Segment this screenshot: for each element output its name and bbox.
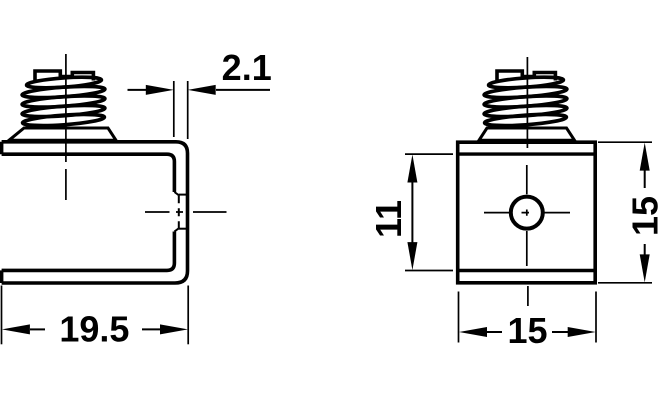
bracket inner contour lower part [2,232,175,271]
dimension 15 right extension line bottom [598,282,652,284]
svg-text:15: 15 [624,196,660,236]
dimension 15 bottom extension line left [458,292,460,343]
dimension 2.1 extension line outer [187,81,189,139]
hole circle [511,197,543,229]
dimension 11 extension line bottom [405,270,453,272]
dimension 11 line with arrows [411,178,413,246]
dimension 15 bottom extension line right [595,292,597,343]
horizontal centerline right view [484,212,570,214]
hidden hole dashed bore line [178,195,180,228]
bracket inner contour upper part [2,154,175,192]
dimension 19.5 extension line left [1,286,3,345]
screw neck trapezoid left [9,128,116,140]
screw thread right view [484,71,567,128]
screw neck trapezoid right [479,128,575,140]
vertical centerline right view [527,57,528,306]
block top band line [458,152,596,155]
dimension 2.1 left arrow [128,89,147,91]
svg-text:15: 15 [507,310,547,351]
dimension 15 right line with arrows [644,170,646,255]
dimension 19.5 right arrow [142,328,160,330]
dimension 15 bottom left arrow [486,331,502,333]
dimension 11 extension line top [405,153,453,155]
dimension 15 right extension line top [598,141,652,143]
dimension 19.5 left arrow [30,328,45,330]
bracket left end closures [0,142,3,283]
hidden hole chamfer top [174,192,178,195]
hidden hole chamfer bottom [174,228,178,231]
screw vertical centerline left view [65,54,67,200]
hidden hole top edge [179,194,188,196]
dimension 2.1 extension line inner [173,81,175,137]
block outline [458,142,596,283]
block bottom band line [458,269,596,272]
hidden hole bottom edge [179,228,188,230]
dimension 15 bottom right arrow [552,331,568,333]
dimension 19.5 extension line right [187,286,189,345]
bracket outer contour [2,142,188,283]
svg-text:2.1: 2.1 [222,47,272,88]
horizontal centerline through hidden hole [145,211,227,213]
screw thread left view [22,71,105,128]
dimension 2.1 right arrow [216,89,270,91]
svg-text:19.5: 19.5 [59,309,129,350]
svg-text:11: 11 [368,200,409,238]
